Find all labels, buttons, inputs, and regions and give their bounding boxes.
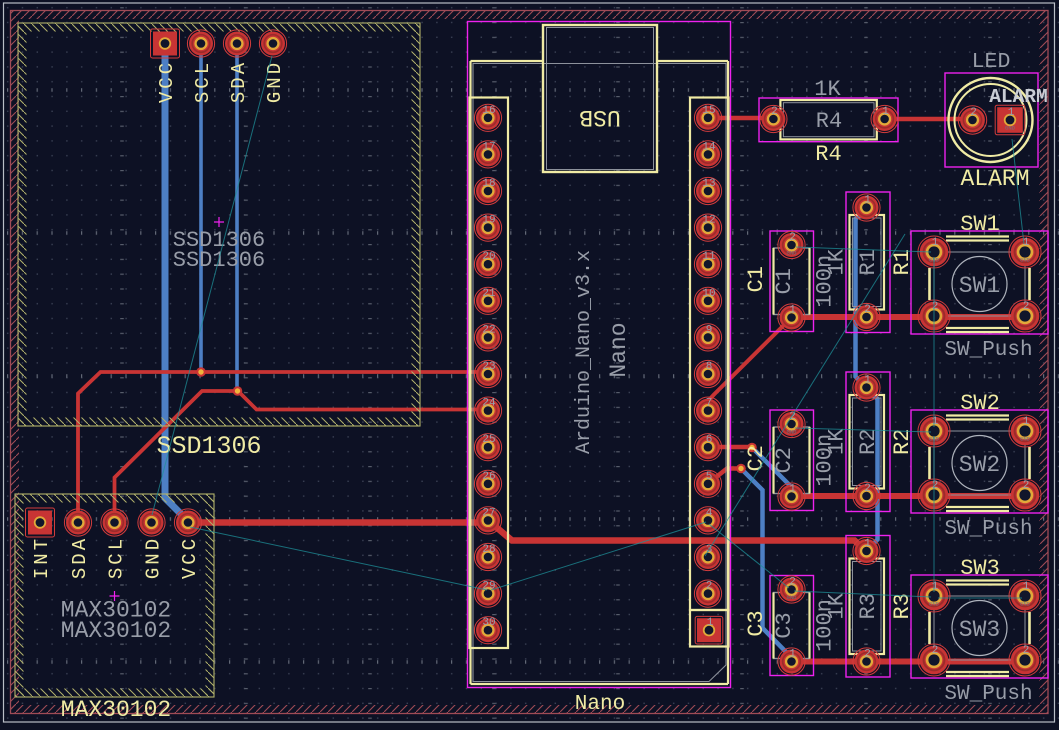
svg-text:SW_Push: SW_Push: [944, 683, 1032, 706]
svg-text:VCC: VCC: [179, 536, 201, 579]
USB label: [579, 104, 620, 130]
svg-text:11: 11: [702, 251, 716, 263]
pad 1 SW3: [918, 580, 950, 612]
svg-text:SW1: SW1: [960, 212, 1000, 237]
pad 2 SW1: [918, 300, 950, 332]
pin label SCL MAX30102: [106, 536, 128, 579]
pad 1 R4: [871, 105, 898, 132]
value 100n C3: [813, 599, 838, 652]
silkscreen text R4: [815, 142, 841, 167]
airwire SW2 to SW3: [933, 436, 935, 592]
silkscreen reference R3: [890, 593, 915, 619]
reference R1 (fab): [856, 249, 881, 275]
silkscreen reference C2: [744, 445, 769, 471]
wire VCC B.Cu R2 to R3: [866, 388, 878, 552]
value 100n C1: [813, 255, 838, 308]
svg-text:2: 2: [789, 577, 796, 589]
svg-text:GND: GND: [1005, 125, 1016, 132]
pad SDA SSD1306: [223, 30, 250, 57]
value Nano (fab): [606, 322, 632, 377]
pad 17 Nano: [474, 141, 501, 168]
USB connector silkscreen: [543, 25, 657, 172]
reference Arduino_Nano_v3.x (fab): [573, 250, 596, 454]
pad 4 Nano: [694, 507, 721, 534]
svg-text:7: 7: [706, 398, 713, 410]
svg-text:USB: USB: [579, 104, 620, 130]
pad 2 R4: [760, 105, 787, 132]
wire VCC B.Cu R1 to R2: [856, 208, 867, 388]
svg-text:SW3: SW3: [960, 556, 1000, 581]
pad 21 Nano: [474, 287, 501, 314]
value SW_Push SW3: [944, 683, 1032, 706]
pad 12 Nano: [694, 214, 721, 241]
module MAX30102 outline: [15, 494, 214, 697]
svg-text:SW2: SW2: [960, 391, 1000, 416]
svg-text:2: 2: [771, 106, 778, 118]
pad 2 R3: [853, 648, 880, 675]
svg-text:2: 2: [932, 301, 939, 313]
pin label GND MAX30102: [143, 536, 165, 579]
value MAX30102 (fab): [61, 618, 171, 644]
pad 1 C1: [778, 304, 805, 331]
pad 1 C2: [778, 483, 805, 510]
pad 1 R3: [853, 537, 880, 564]
svg-text:SW_Push: SW_Push: [944, 518, 1032, 541]
via SCL: [196, 367, 206, 377]
value 1K R1: [825, 248, 850, 275]
silkscreen reference R2: [890, 429, 915, 455]
airwire C2 to SW2: [795, 428, 931, 432]
LED silkscreen circles: [949, 78, 1033, 162]
pad GND MAX30102: [138, 509, 165, 536]
svg-text:1: 1: [789, 305, 796, 317]
pad INT MAX30102: [26, 508, 55, 537]
wire VCC F.Cu MAX30102 to Nano to R3: [188, 521, 867, 552]
capacitor C1 courtyard: [770, 231, 814, 332]
pad 18 Nano: [474, 177, 501, 204]
svg-text:26: 26: [482, 471, 495, 483]
text ALARM (drawings): [989, 86, 1048, 108]
svg-text:28: 28: [482, 544, 495, 556]
pad 1 Nano: [695, 616, 723, 644]
R4 body: [780, 100, 876, 139]
value 1K R3: [825, 592, 850, 619]
svg-text:12: 12: [702, 215, 715, 227]
reference C2 (fab): [772, 447, 797, 473]
svg-text:19: 19: [482, 215, 495, 227]
svg-text:1K: 1K: [825, 592, 850, 619]
svg-text:1: 1: [1023, 581, 1030, 593]
pad 2 Nano: [694, 580, 721, 607]
svg-text:Nano: Nano: [606, 322, 632, 377]
svg-text:GND: GND: [929, 601, 940, 608]
pad 13 Nano: [694, 177, 721, 204]
svg-text:4: 4: [706, 507, 713, 519]
pad 2 SW3: [918, 644, 950, 676]
pad 2 SW1: [1009, 300, 1041, 332]
svg-text:R3: R3: [856, 593, 881, 619]
svg-text:MAX30102: MAX30102: [61, 618, 171, 644]
pad 25 Nano: [474, 434, 501, 461]
SW3 silkscreen: [930, 581, 1030, 677]
reference SSD1306 (fab): [173, 228, 265, 253]
wire F.Cu row1 C1-R1-SW1: [792, 314, 1026, 320]
svg-text:21: 21: [482, 288, 496, 300]
silkscreen reference C3: [744, 610, 769, 636]
switch SW3 courtyard: [911, 575, 1048, 678]
pad 7 Nano: [694, 397, 721, 424]
airwire SW3 pads: [938, 597, 1022, 599]
capacitor C3 courtyard: [770, 576, 814, 676]
wire SCL B.Cu SSD1306 pad to via: [199, 44, 203, 372]
wire F.Cu Nano pad5 to via: [708, 469, 741, 484]
svg-text:1: 1: [864, 195, 871, 207]
resistor R3 courtyard: [846, 536, 890, 678]
Nano silkscreen body: [471, 61, 729, 684]
pad 10 Nano: [694, 287, 721, 314]
airwire C3 to SW3: [794, 591, 931, 597]
svg-text:GND: GND: [787, 429, 798, 436]
pad 20 Nano: [474, 251, 501, 278]
svg-text:ALARM: ALARM: [960, 166, 1029, 192]
svg-text:GND: GND: [1020, 436, 1031, 443]
pad 1 SW1: [918, 236, 950, 268]
svg-text:C1: C1: [772, 268, 797, 294]
pad 2 SW3: [1009, 644, 1041, 676]
switch SW2 courtyard: [911, 410, 1048, 513]
pin label SCL: [192, 60, 214, 103]
wire F.Cu row3 C3-R3-SW3: [792, 659, 1025, 665]
svg-text:C2: C2: [772, 447, 797, 473]
pad GND SSD1306: [259, 30, 286, 57]
svg-text:14: 14: [702, 141, 716, 153]
svg-text:15: 15: [702, 105, 715, 117]
pad SDA MAX30102: [64, 509, 91, 536]
pad 1 R2: [853, 374, 880, 401]
pad 28 Nano: [474, 543, 501, 570]
SW3 fab outline: [934, 596, 1025, 660]
C2 body: [774, 427, 810, 494]
pad 11 Nano: [694, 251, 721, 278]
reference SW2 (fab): [959, 452, 1000, 478]
svg-text:R4: R4: [816, 109, 842, 134]
pad 2 R1: [853, 303, 880, 330]
R3 body: [850, 559, 885, 655]
switch SW1 courtyard: [911, 231, 1048, 334]
svg-text:24: 24: [482, 398, 496, 410]
SW2 fab outline: [934, 431, 1025, 495]
pad 2 C1: [778, 231, 805, 258]
silkscreen reference SW2: [960, 391, 1000, 416]
pad 14 Nano: [694, 141, 721, 168]
reference MAX30102 (fab): [61, 598, 171, 624]
wire B.Cu via to C3 pad1: [741, 469, 792, 662]
svg-text:SW1: SW1: [959, 273, 1000, 299]
silkscreen text MAX30102: [61, 697, 171, 723]
svg-text:1: 1: [789, 484, 796, 496]
resistor R1 courtyard: [846, 192, 890, 333]
pin label GND: [264, 60, 286, 103]
via SDA: [233, 386, 243, 396]
pad 3 Nano: [694, 543, 721, 570]
value SSD1306 (fab): [173, 248, 265, 273]
reference C1 (fab): [772, 268, 797, 294]
svg-text:1: 1: [1008, 107, 1015, 119]
pad 24 Nano: [474, 397, 501, 424]
svg-text:2: 2: [1023, 480, 1030, 492]
svg-text:R4: R4: [815, 142, 841, 167]
LED ALARM courtyard: [945, 73, 1038, 167]
svg-text:9: 9: [706, 324, 713, 336]
anchor MAX30102: [110, 591, 120, 601]
airwire SSD GND to MAX GND: [152, 56, 272, 515]
svg-text:C1: C1: [744, 266, 769, 292]
svg-text:1: 1: [932, 416, 939, 428]
reference R4 (fab): [816, 109, 842, 134]
R2 body: [850, 395, 885, 489]
pad 2 R2: [853, 482, 880, 509]
pad 1 SW2: [1009, 415, 1041, 447]
svg-text:2: 2: [864, 649, 871, 661]
capacitor C2 courtyard: [770, 410, 814, 511]
pad 1 SW1: [1009, 236, 1041, 268]
value SW_Push SW2: [944, 518, 1032, 541]
svg-text:8: 8: [706, 361, 713, 373]
pad 2 C3: [778, 576, 805, 603]
pin label VCC MAX30102: [179, 536, 201, 579]
value SW_Push SW1: [944, 339, 1032, 362]
svg-text:1: 1: [1023, 416, 1030, 428]
wire F.Cu R4 pad1 to LED pad2: [885, 117, 973, 122]
pad 16 Nano: [474, 104, 501, 131]
airwire Nano pad4 to C3: [709, 524, 789, 588]
pad 2 LED: [958, 106, 986, 134]
SW1 fab outline: [934, 252, 1025, 316]
silkscreen text Nano: [575, 693, 625, 716]
wire F.Cu row2 C2-R2-SW2: [792, 493, 1026, 499]
airwire MAX VCC to Nano pad29: [190, 527, 487, 590]
wire VCC B.Cu SSD1306-VCC to MAX30102-VCC: [165, 44, 188, 521]
svg-text:GND: GND: [264, 60, 286, 103]
airwire C1 to SW1: [796, 247, 931, 252]
pad 8 Nano: [694, 360, 721, 387]
module SSD1306 outline: [18, 23, 420, 426]
svg-text:1: 1: [789, 649, 796, 661]
SW2 silkscreen: [930, 416, 1030, 512]
pad SCL MAX30102: [101, 509, 128, 536]
pad VCC SSD1306: [151, 29, 180, 58]
airwire SW1 to SW2: [933, 257, 935, 427]
SW1 silkscreen: [930, 237, 1030, 333]
svg-text:2: 2: [1023, 645, 1030, 657]
pad 27 Nano: [474, 507, 501, 534]
svg-text:2: 2: [970, 107, 977, 119]
svg-text:23: 23: [482, 361, 495, 373]
reference SW1 (fab): [959, 273, 1000, 299]
pad VCC MAX30102: [174, 509, 201, 536]
value 100n C2: [813, 434, 838, 487]
svg-text:SW2: SW2: [959, 452, 1000, 478]
via net C3: [736, 464, 746, 474]
svg-text:GND: GND: [787, 594, 798, 601]
svg-text:SCL: SCL: [192, 60, 214, 103]
svg-text:30: 30: [482, 617, 495, 629]
svg-text:R2: R2: [856, 429, 881, 455]
svg-text:GND: GND: [143, 536, 165, 579]
svg-text:1K: 1K: [825, 248, 850, 275]
svg-text:5: 5: [706, 471, 713, 483]
pin label SDA: [228, 60, 250, 103]
pad SCL SSD1306: [187, 30, 214, 57]
reference SW3 (fab): [959, 617, 1000, 643]
svg-text:1: 1: [932, 581, 939, 593]
svg-text:SCL: SCL: [106, 536, 128, 579]
anchor SSD1306: [214, 217, 224, 227]
C3 body: [774, 593, 810, 659]
pad 1 SW3: [1009, 580, 1041, 612]
pad 5 Nano: [694, 470, 721, 497]
pad 22 Nano: [474, 324, 501, 351]
pad 30 Nano: [474, 617, 501, 644]
reference LED (fab): [972, 50, 1011, 74]
pad 1 LED GND: [995, 105, 1025, 135]
svg-text:25: 25: [482, 434, 495, 446]
svg-text:2: 2: [789, 232, 796, 244]
R1 body: [850, 215, 885, 310]
reference R3 (fab): [856, 593, 881, 619]
wire B.Cu via to C2 pad1: [752, 448, 792, 497]
svg-text:18: 18: [482, 178, 495, 190]
silkscreen reference SW1: [960, 212, 1000, 237]
svg-text:GND: GND: [1020, 601, 1031, 608]
resistor R4 courtyard: [759, 98, 898, 142]
svg-text:1: 1: [932, 237, 939, 249]
svg-text:R1: R1: [856, 249, 881, 275]
C1 body: [774, 248, 810, 315]
svg-text:2: 2: [864, 304, 871, 316]
pad 6 Nano: [694, 434, 721, 461]
svg-text:1: 1: [864, 538, 871, 550]
silkscreen reference C1: [744, 266, 769, 292]
Nano header silkscreen left: [470, 98, 509, 649]
Nano header silkscreen right: [690, 98, 729, 647]
svg-text:2: 2: [932, 645, 939, 657]
svg-text:MAX30102: MAX30102: [61, 697, 171, 723]
silkscreen reference R1: [890, 249, 915, 275]
module Arduino Nano courtyard: [468, 22, 731, 688]
pad 2 C2: [778, 410, 805, 437]
pad 1 SW2: [918, 415, 950, 447]
svg-text:6: 6: [706, 434, 713, 446]
svg-text:29: 29: [482, 581, 495, 593]
svg-text:LED: LED: [972, 50, 1011, 74]
svg-text:2: 2: [789, 411, 796, 423]
svg-text:GND: GND: [1020, 257, 1031, 264]
svg-text:22: 22: [482, 324, 495, 336]
wire F.Cu Nano pad15 to R4 pad2: [709, 116, 773, 121]
svg-text:1: 1: [864, 375, 871, 387]
svg-text:SDA: SDA: [69, 536, 91, 579]
svg-text:C3: C3: [744, 610, 769, 636]
svg-text:SW_Push: SW_Push: [944, 339, 1032, 362]
pad 2 SW2: [918, 479, 950, 511]
svg-text:Nano: Nano: [575, 693, 625, 716]
via net C2: [747, 443, 757, 453]
pad 2 SW2: [1009, 479, 1041, 511]
airwire Nano pad29 to pad4: [491, 522, 706, 590]
pin label VCC: [156, 60, 178, 103]
svg-text:C3: C3: [772, 612, 797, 638]
wire F.Cu C1 to Nano pad7: [708, 318, 792, 411]
silkscreen reference SW3: [960, 556, 1000, 581]
pin label SDA MAX30102: [69, 536, 91, 579]
svg-text:1: 1: [707, 617, 714, 629]
svg-text:SW3: SW3: [959, 617, 1000, 643]
svg-text:2: 2: [1023, 301, 1030, 313]
pad 1 C3: [778, 648, 805, 675]
svg-text:2: 2: [932, 480, 939, 492]
silkscreen text SSD1306: [156, 432, 261, 461]
reference C3 (fab): [772, 612, 797, 638]
svg-text:10: 10: [702, 288, 715, 300]
svg-text:2: 2: [864, 483, 871, 495]
airwire LED to SW1: [1012, 139, 1024, 244]
pad 19 Nano: [474, 214, 501, 241]
svg-text:ALARM: ALARM: [989, 86, 1048, 108]
svg-text:17: 17: [482, 141, 495, 153]
svg-text:13: 13: [702, 178, 715, 190]
svg-text:20: 20: [482, 251, 495, 263]
svg-text:1: 1: [882, 106, 889, 118]
svg-text:Arduino_Nano_v3.x: Arduino_Nano_v3.x: [573, 250, 596, 454]
reference R2 (fab): [856, 429, 881, 455]
pad 23 Nano: [474, 360, 501, 387]
svg-text:1K: 1K: [825, 428, 850, 455]
wire F.Cu Nano pad6 to via: [708, 445, 752, 450]
pad 29 Nano: [474, 580, 501, 607]
pad 9 Nano: [694, 324, 721, 351]
svg-text:1K: 1K: [814, 77, 841, 102]
resistor R2 courtyard: [846, 372, 890, 512]
svg-text:GND: GND: [787, 250, 798, 257]
wire SDA B.Cu SSD1306 pad to via: [235, 44, 239, 391]
wire SDA F.Cu MAX30102 to Nano pad23: [78, 372, 488, 521]
svg-text:INT: INT: [31, 536, 53, 579]
value 1K R2: [825, 428, 850, 455]
svg-text:VCC: VCC: [156, 60, 178, 103]
svg-text:27: 27: [482, 507, 495, 519]
pad 1 R1: [853, 194, 880, 221]
pin label INT MAX30102: [31, 536, 53, 579]
silkscreen text ALARM: [960, 166, 1029, 192]
svg-text:16: 16: [482, 105, 495, 117]
airwire diag near pad3: [705, 234, 905, 556]
pad 15 Nano: [694, 104, 721, 131]
pad 26 Nano: [474, 470, 501, 497]
value 1K R4: [814, 77, 841, 102]
Nano fab outline: [473, 64, 726, 682]
svg-text:2: 2: [706, 581, 713, 593]
wire SCL F.Cu MAX30102 to Nano pad24: [115, 391, 489, 521]
svg-text:SDA: SDA: [228, 60, 250, 103]
